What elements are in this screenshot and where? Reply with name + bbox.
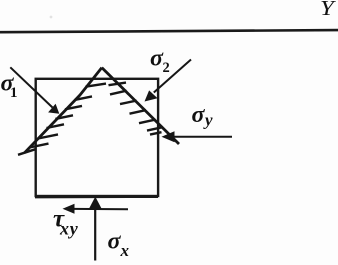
sigma_x arrow xyxy=(88,197,102,261)
faint speck xyxy=(50,16,53,19)
svg-text:1: 1 xyxy=(10,85,18,101)
hatch marks, left plane xyxy=(18,84,106,155)
svg-text:σ: σ xyxy=(192,102,206,128)
hatch marks, right plane xyxy=(109,83,164,135)
principal plane line left (hatched) xyxy=(25,68,102,153)
sigma2 arrow xyxy=(145,60,192,102)
square bottom edge emphasis xyxy=(35,196,158,198)
svg-text:xy: xy xyxy=(59,218,79,238)
tau_xy arrow xyxy=(63,204,129,214)
svg-text:2: 2 xyxy=(163,60,170,76)
svg-text:y: y xyxy=(203,110,213,129)
svg-text:x: x xyxy=(120,241,130,260)
top rule xyxy=(0,30,338,32)
svg-text:σ: σ xyxy=(108,229,122,255)
svg-text:Y: Y xyxy=(320,0,336,19)
sigma_y arrow xyxy=(162,131,233,142)
sigma1 arrow xyxy=(10,67,59,114)
stress element square xyxy=(36,79,158,196)
principal plane line right (hatched) xyxy=(102,68,179,144)
